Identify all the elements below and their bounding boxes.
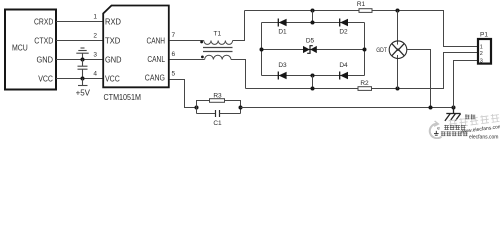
- svg-text:3: 3: [93, 52, 97, 59]
- watermark swirl: [430, 121, 442, 138]
- svg-text:R2: R2: [360, 80, 369, 87]
- note line 2: [441, 131, 468, 136]
- svg-text:2: 2: [480, 51, 483, 57]
- wire diode bottom rail: [262, 75, 365, 77]
- svg-text:CTXD: CTXD: [34, 36, 53, 45]
- wire CANH to T1: [170, 40, 204, 42]
- node R3C1 right: [239, 106, 243, 110]
- T1 core: [203, 47, 233, 49]
- node GDT earth: [429, 106, 433, 110]
- capacitor C1: [197, 113, 216, 115]
- node CANL GDT branch: [396, 87, 400, 91]
- wire diode right vertical: [364, 23, 366, 76]
- svg-text:1: 1: [480, 44, 483, 50]
- svg-text:D5: D5: [306, 38, 315, 45]
- node VCC junction: [81, 77, 85, 81]
- svg-text:+5V: +5V: [76, 89, 91, 98]
- watermark logo: [448, 113, 499, 127]
- wire CANG: [170, 80, 197, 108]
- svg-text:P1: P1: [480, 32, 488, 39]
- ground symbol: [76, 48, 88, 60]
- wire bottom rail branch down: [312, 76, 314, 89]
- svg-text:D4: D4: [339, 62, 348, 69]
- wire T1 top out up to CANH bus: [233, 11, 245, 41]
- svg-text:CANG: CANG: [145, 74, 165, 83]
- svg-text:CANH: CANH: [147, 36, 166, 45]
- wire CRXD-RXD pin1: [56, 21, 103, 23]
- wire earth bus: [241, 107, 454, 109]
- diode D2: [339, 19, 348, 36]
- svg-text:VCC: VCC: [38, 74, 53, 83]
- note line 1: [444, 125, 465, 130]
- diode D1: [278, 19, 287, 36]
- wire diode left vertical: [261, 23, 263, 76]
- wire CANL bus: [246, 88, 359, 90]
- wire VCC-VCC pin4: [56, 78, 103, 80]
- svg-text:elecfans.com: elecfans.com: [469, 135, 498, 139]
- TVS D5: [303, 38, 317, 54]
- svg-text:6: 6: [172, 51, 176, 58]
- wire GND-GND pin3: [56, 59, 103, 61]
- svg-text:C1: C1: [213, 120, 222, 127]
- tiny earth glyph: [434, 131, 439, 135]
- svg-text:D3: D3: [278, 62, 287, 69]
- node middle rail right: [363, 48, 367, 52]
- wire R2 to P1 pin2: [372, 53, 478, 89]
- T1 top winding: [204, 41, 233, 45]
- wire R1 to P1 pin1: [372, 11, 478, 47]
- svg-text:D1: D1: [278, 29, 287, 36]
- svg-text:TXD: TXD: [105, 36, 121, 45]
- wire CANL to T1: [170, 59, 205, 61]
- svg-text:R1: R1: [357, 1, 366, 8]
- node CANH diode branch: [311, 9, 315, 13]
- earth ground symbol: [445, 108, 461, 121]
- connector P1: [478, 39, 491, 64]
- svg-text:GDT: GDT: [376, 47, 387, 54]
- node bottom rail center: [311, 74, 315, 78]
- svg-text:CANL: CANL: [147, 55, 165, 64]
- node GND junction: [81, 58, 85, 62]
- svg-text:CRXD: CRXD: [34, 17, 53, 26]
- svg-text:RXD: RXD: [105, 17, 121, 26]
- svg-text:3: 3: [480, 58, 483, 64]
- node earth end: [452, 106, 456, 110]
- svg-text:5: 5: [172, 71, 176, 78]
- T1 top polarity dot: [200, 41, 203, 44]
- svg-text:2: 2: [93, 33, 97, 40]
- svg-text:7: 7: [172, 32, 176, 39]
- node R3C1 left: [195, 106, 199, 110]
- node middle rail left: [260, 48, 264, 52]
- svg-text:1: 1: [93, 14, 97, 21]
- capacitor decoupling: [78, 60, 88, 79]
- wire diode top rail: [262, 22, 365, 24]
- wire branch down to diode rail: [312, 11, 314, 23]
- diode D4: [339, 62, 348, 80]
- diode D3: [278, 62, 287, 80]
- node top rail center: [311, 21, 315, 25]
- svg-text:GND: GND: [37, 55, 54, 64]
- svg-text:T1: T1: [214, 31, 222, 38]
- svg-text:CTM1051M: CTM1051M: [104, 92, 142, 102]
- svg-text:D2: D2: [339, 29, 348, 36]
- wire CANH bus: [245, 10, 360, 12]
- T1 bottom polarity dot: [201, 56, 204, 59]
- power rail +5V: [78, 79, 88, 86]
- svg-text:VCC: VCC: [105, 74, 120, 83]
- wire middle rail: [262, 49, 365, 51]
- gas discharge tube GDT: [376, 11, 430, 108]
- wire CTXD-TXD pin2: [56, 40, 103, 42]
- IC U1 CTM1051M box: [103, 6, 169, 88]
- svg-text:4: 4: [93, 71, 97, 78]
- node CANL center: [311, 87, 315, 91]
- T1 bottom winding: [205, 55, 231, 59]
- label earth text: [465, 114, 475, 119]
- wire T1 bottom out down to CANL bus: [231, 60, 246, 89]
- svg-text:GND: GND: [105, 55, 122, 64]
- svg-text:MCU: MCU: [12, 43, 28, 53]
- wire earth end to P1 pin3: [454, 61, 478, 108]
- node CANH GDT branch: [396, 9, 400, 13]
- MCU U2 box: [5, 10, 56, 90]
